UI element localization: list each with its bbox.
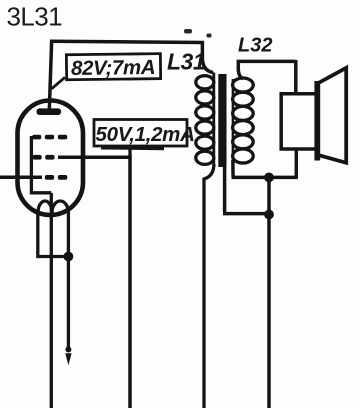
junction dot filament [64,252,74,262]
svg-text:82V;7mA: 82V;7mA [71,56,155,80]
transformer primary L31 stem [212,73,215,167]
wire anode to L31 top [51,41,213,72]
transformer secondary L32 loops [233,78,254,163]
transformer primary L31 loops [196,76,214,165]
wire junction2 to bottom edge [267,215,271,408]
transformer secondary L32 top lead [238,61,295,78]
wire grid2 drop to bottom [128,155,132,408]
filament right lead [67,212,70,351]
scan speck 1 [184,29,192,34]
label box 50V,1,2mA [94,120,195,149]
grid 2 (middle dashed row) [33,155,55,160]
scan speck 2 [207,34,212,38]
wire grid1 lead to bottom [50,193,53,408]
label L32 [238,35,272,57]
grid 1 (top dashed row) [32,135,67,140]
speaker bottom lead [295,149,299,179]
grid 3 dashes [45,175,68,180]
L32 bottom lead to junction 1 [233,160,269,177]
grid 3 (bottom dashed row) lead exiting left [0,176,42,180]
anode (plate) bar [37,108,62,115]
L31 bottom lead to bottom edge [204,164,214,408]
title 3L31 [7,2,63,32]
transformer secondary L32 stem [232,79,235,162]
svg-text:L32: L32 [238,35,272,57]
label L31 [167,49,205,75]
svg-text:L31: L31 [167,49,205,75]
speaker top lead [294,60,298,95]
filament right arc [52,201,68,213]
svg-text:3L31: 3L31 [7,2,63,32]
connector arrow (filament feed) [65,347,71,366]
speaker driver rectangle (open right, closed by bar) [281,94,315,149]
core tail wire to junction [223,166,269,214]
anode lead wire [49,40,51,111]
pointer 82V box to anode lead [52,77,66,89]
wire junction1 to junction2 [267,177,271,214]
transformer core [218,74,226,167]
speaker diaphragm bar [314,81,320,161]
junction dot 1 (L32 / speaker) [264,173,274,183]
junction dot 2 [264,210,274,220]
filament left lead [38,212,69,257]
filament left arc [38,201,52,212]
speaker cone [318,68,347,163]
wire junction1 to speaker [269,176,298,180]
label box 82V;7mA [66,54,160,80]
grid 1 internal lead [31,136,51,193]
svg-text:50V,1,2mA: 50V,1,2mA [96,123,195,146]
tube V1 envelope [18,101,84,216]
grid 2 lead to measurement point [58,155,130,159]
pointer stub box to wire [128,146,131,158]
